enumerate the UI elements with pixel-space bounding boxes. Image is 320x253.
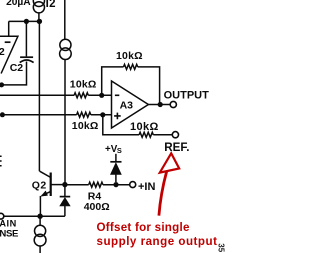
wire plus input to REF [103, 115, 173, 135]
wire to bottom edge [39, 246, 41, 253]
wire dot to C2 [25, 21, 27, 56]
wire I2 to Q2 collector vertical [38, 21, 40, 171]
svg-text:A3: A3 [120, 99, 134, 111]
capacitor C2 [3, 57, 34, 85]
wire current source to base node [64, 59, 66, 184]
svg-text:REF.: REF. [164, 141, 189, 154]
svg-text:NSE: NSE [0, 228, 19, 239]
wire dot to bottom current source [39, 216, 41, 225]
svg-text:2: 2 [0, 46, 5, 58]
svg-text:+V: +V [105, 144, 118, 155]
terminal REF [172, 132, 178, 138]
wire top horizontal [9, 21, 40, 36]
diode D2 to +VS [110, 154, 121, 182]
svg-text:+IN: +IN [138, 181, 155, 193]
wire feedback loop [102, 67, 160, 105]
diode D1 [60, 187, 70, 216]
svg-text:I2: I2 [46, 0, 56, 10]
resistor R4 [89, 182, 103, 187]
node dot left edge lower [0, 112, 5, 117]
wire A3 output [148, 104, 170, 106]
resistor 10k upper-left [74, 93, 88, 98]
svg-text:10kΩ: 10kΩ [70, 78, 97, 90]
op-amp A2 (partial) [0, 36, 18, 73]
op-amp A3 [112, 81, 149, 128]
terminal left (sense) [0, 213, 4, 219]
label +VS [105, 144, 122, 155]
wire lower input row [2, 114, 111, 116]
svg-text:10kΩ: 10kΩ [130, 121, 159, 133]
terminal +IN [130, 182, 136, 188]
svg-text:35: 35 [217, 243, 226, 252]
current source (bottom) [34, 225, 46, 246]
annotation arrow (red) [159, 153, 179, 215]
node dot output [158, 102, 163, 107]
resistor 10k feedback [124, 64, 138, 69]
svg-text:Offset for single: Offset for single [97, 221, 190, 234]
node dot left edge (A2 output) [0, 82, 4, 87]
svg-text:20µA: 20µA [6, 0, 31, 8]
svg-text:400Ω: 400Ω [84, 201, 110, 213]
resistor 10k lower-left [77, 112, 91, 117]
edge marks left [0, 156, 2, 166]
node dot A3 plus input [100, 112, 105, 117]
wire top edge to current source [64, 0, 66, 39]
svg-text:S: S [117, 146, 122, 155]
node dot +IN junction [113, 182, 118, 187]
node junction dot under I2 [37, 19, 42, 24]
wire Q2 base [52, 184, 65, 186]
node junction dot top-left [24, 19, 29, 24]
node dot bottom [37, 214, 42, 219]
resistor 10k REF [139, 132, 153, 137]
current source (middle) [60, 39, 72, 59]
wire upper input row [0, 94, 112, 96]
svg-text:Q2: Q2 [32, 179, 47, 191]
svg-text:AIN: AIN [0, 218, 17, 228]
svg-text:C2: C2 [10, 62, 24, 74]
wire R4 row [66, 184, 130, 186]
current source I2 [33, 0, 44, 21]
wire bottom horizontal [4, 215, 65, 217]
transistor Q2 [40, 171, 51, 216]
svg-text:OUTPUT: OUTPUT [164, 89, 210, 101]
svg-text:10kΩ: 10kΩ [116, 50, 143, 62]
svg-text:supply range output: supply range output [97, 235, 218, 248]
node dot base/diode junction [62, 182, 67, 187]
terminal OUTPUT [170, 101, 176, 107]
node dot A3 minus input [99, 93, 104, 98]
svg-text:10kΩ: 10kΩ [72, 120, 99, 132]
